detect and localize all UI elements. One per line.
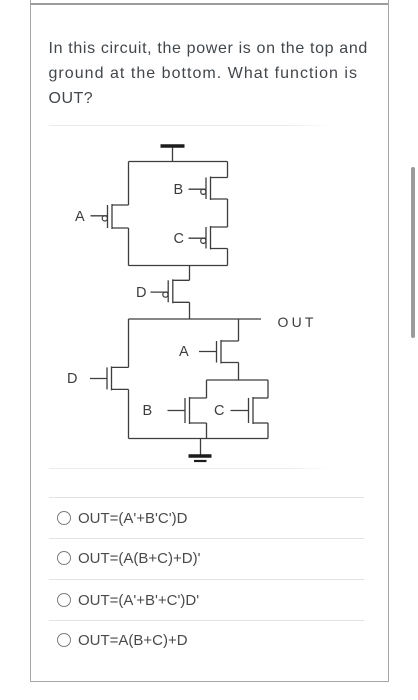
wire: C branch upper	[267, 380, 269, 398]
radio 4	[57, 633, 71, 647]
divider under circuit	[49, 468, 331, 469]
wire: pull-up top rail	[129, 161, 228, 163]
transistor A (NMOS pull-down)	[199, 340, 239, 364]
svg-text:A: A	[179, 344, 189, 360]
option 1 text	[78, 510, 187, 527]
option 4 text	[78, 632, 188, 649]
svg-text:B: B	[143, 403, 153, 419]
svg-text:OUT: OUT	[278, 314, 317, 330]
transistor B (NMOS pull-down)	[168, 397, 207, 424]
wire: left branch upper	[128, 162, 130, 206]
wire: A to parallel block	[238, 363, 240, 381]
radio 3	[57, 593, 71, 607]
option 2 text	[78, 550, 200, 567]
node OUT rail	[129, 318, 262, 320]
wire: B branch upper	[206, 380, 208, 398]
radio 2	[57, 551, 71, 565]
option divider 1	[49, 497, 364, 498]
header divider	[30, 3, 388, 5]
transistor C (PMOS)	[189, 226, 228, 250]
scrollbar thumb	[411, 167, 415, 338]
radio 1	[57, 511, 71, 525]
wire: pull-down bottom rail	[129, 438, 269, 440]
wire: between B and C	[227, 199, 229, 227]
transistor C (NMOS pull-down)	[231, 397, 269, 424]
svg-text:D: D	[67, 371, 77, 387]
option 3 text	[78, 592, 199, 609]
svg-text:A: A	[75, 209, 85, 225]
wire: B branch lower	[206, 423, 208, 439]
wire: right branch upper	[227, 162, 229, 178]
ground	[189, 439, 212, 462]
wire: right branch lower	[227, 249, 229, 266]
svg-text:D: D	[136, 285, 146, 301]
wire: pull-down left branch lower	[128, 389, 130, 438]
option divider 3	[49, 579, 364, 580]
transistor A (PMOS)	[91, 204, 129, 229]
wire: tap down to D	[189, 266, 191, 281]
option divider 2	[49, 538, 364, 539]
transistor D (NMOS pull-down)	[90, 366, 129, 390]
wire: D to OUT rail	[189, 302, 191, 319]
wire: C branch lower	[267, 423, 269, 439]
transistor D (PMOS)	[151, 279, 190, 303]
svg-text:C: C	[174, 231, 184, 247]
wire: parallel block top rail	[207, 379, 269, 381]
question text	[49, 36, 368, 111]
transistor B (PMOS)	[189, 177, 228, 201]
svg-text:C: C	[214, 403, 224, 419]
wire: pull-up bottom rail	[129, 265, 228, 267]
option divider 4	[49, 620, 364, 621]
divider under question	[49, 125, 331, 126]
svg-text:B: B	[174, 182, 184, 198]
wire: left branch lower	[128, 228, 130, 266]
power symbol VDD	[161, 146, 185, 162]
wire: OUT down to A	[238, 319, 240, 341]
wire: pull-down left branch upper	[128, 319, 130, 367]
